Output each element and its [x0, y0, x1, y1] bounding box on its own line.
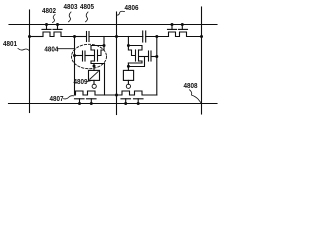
transistor Q6 bottom dual-gate right humps and wire: [117, 91, 157, 95]
node Q2 gate a on H1: [171, 23, 174, 26]
node left EL node: [93, 65, 96, 68]
wire V3 right signal line: [201, 7, 203, 114]
wire cap to driver gate: [85, 55, 95, 57]
leader 4808: [190, 90, 202, 103]
transistor Q2 dual-gate right channel humps: [169, 32, 202, 37]
wire left branch vertical x74.5: [74, 37, 76, 96]
transistor Q2 gate stub b: [181, 25, 183, 30]
wire H2 segment to cap 4803: [75, 36, 87, 38]
transistor Q1 gate bar a: [42, 28, 51, 30]
transistor Q1 gate stub b: [57, 25, 59, 30]
capacitor C2 left gate cap plates: [82, 51, 84, 61]
wire H4 bottom gate line: [9, 103, 218, 105]
node Q1 gate a on H1: [45, 23, 48, 26]
EL element D2 box right: [123, 70, 133, 80]
leader 4807: [64, 96, 74, 99]
wire box2 stub top: [127, 67, 129, 71]
node V3-H2: [200, 35, 203, 38]
node V2-H2: [115, 35, 118, 38]
node V2-H3: [115, 94, 118, 97]
transistor Q2 gate bar b: [179, 28, 188, 30]
svg-text:4806: 4806: [125, 3, 139, 12]
wire H2 segment cap to x157: [146, 36, 169, 38]
wire right EL node to riser: [128, 57, 144, 67]
node x157 cap node: [155, 55, 158, 58]
transistor Q5 bottom dual-gate 4807 humps and wire: [75, 91, 117, 95]
wire Q4 source down to EL node: [127, 63, 129, 67]
wire box stub top: [93, 64, 95, 71]
wire H2 segment cap to V2: [89, 36, 117, 38]
transistor Q5 gate stub a: [79, 99, 81, 104]
node Q5 gate a on H4: [78, 102, 81, 105]
transistor Q4 gate bar: [135, 50, 137, 61]
transistor Q4 source leg: [128, 61, 142, 63]
svg-text:4803: 4803: [64, 2, 78, 11]
EL cathode circle right: [126, 84, 130, 88]
node Q1 gate b on H1: [56, 23, 59, 26]
leader 4802: [53, 15, 56, 23]
transistor Q5 gate bar b: [87, 98, 97, 100]
capacitor C4 right gate cap plates: [148, 51, 150, 61]
transistor Q6 gate stub a: [125, 99, 127, 104]
node Q3 drain dot: [103, 44, 106, 47]
transistor Q3 drain leg: [91, 46, 104, 51]
wire H1 top gate line: [9, 24, 217, 26]
transistor Q6 gate stub b: [137, 99, 139, 104]
transistor Q1 gate bar b: [53, 28, 62, 30]
leader 4805: [86, 12, 89, 22]
node Q4 drain dot: [127, 44, 130, 47]
EL element D1 slash: [90, 72, 98, 80]
node H2 x157: [155, 35, 158, 38]
transistor Q3 gate staircase: [98, 46, 104, 56]
leader 4803: [69, 12, 72, 22]
transistor Q4 gate staircase: [128, 46, 135, 56]
svg-text:4804: 4804: [44, 45, 59, 54]
wire left gate wire to cap: [75, 55, 83, 57]
capacitor C3 right H2 cap plates: [142, 31, 144, 42]
transistor Q3 channel: [94, 50, 96, 61]
EL cathode circle left: [92, 84, 96, 88]
transistor Q6 gate bar a: [121, 98, 131, 100]
transistor Q4 drain leg: [128, 46, 142, 51]
node V1-H2: [28, 35, 31, 38]
transistor Q1 dual-gate 4802 channel humps: [43, 32, 75, 37]
transistor Q2 gate bar a: [168, 28, 177, 30]
transistor Q3 driver left (circled) stub from H2: [103, 37, 105, 46]
node Q6 gate b on H4: [137, 102, 140, 105]
svg-text:4807: 4807: [50, 94, 64, 103]
transistor Q5 gate bar a: [75, 98, 85, 100]
transistor Q3 source leg: [91, 61, 105, 64]
node Q6 gate a on H4: [124, 102, 127, 105]
svg-text:4801: 4801: [3, 39, 17, 48]
svg-text:4802: 4802: [42, 6, 56, 15]
wire left EL node down to bottom wire: [104, 64, 106, 96]
wire H2 segment V2 to cap C3: [117, 36, 143, 38]
wire cap to x157: [151, 56, 157, 58]
node right EL node: [127, 65, 130, 68]
svg-text:4808: 4808: [184, 81, 198, 90]
transistor Q3 gate bar: [97, 50, 99, 61]
transistor Q1 gate stub a: [46, 25, 48, 30]
wire V2 center power line 4806: [116, 12, 118, 115]
wire box stub bottom: [93, 80, 95, 84]
leader 4806: [117, 11, 125, 15]
EL element D1 box left: [89, 70, 100, 80]
leader 4809: [87, 80, 92, 83]
wire box2 stub bottom: [127, 80, 129, 84]
transistor Q2 gate stub a: [171, 25, 173, 30]
leader 4804: [58, 48, 74, 50]
leader 4801: [18, 49, 30, 52]
transistor Q4 channel: [138, 50, 140, 61]
node Q2 gate b on H1: [181, 23, 184, 26]
node x74.5 gate wire: [73, 54, 76, 57]
wire V1 signal line 4801: [29, 10, 31, 113]
capacitor C1 4803 plates: [86, 32, 88, 42]
wire vertical x157: [156, 37, 158, 96]
svg-text:4805: 4805: [80, 2, 94, 11]
wire H2 row wire left pixel: [30, 36, 44, 38]
wire right cap wire: [139, 56, 149, 58]
svg-text:4809: 4809: [74, 77, 88, 86]
dashed circle around driver 4805: [72, 44, 107, 68]
transistor Q6 gate bar b: [134, 98, 144, 100]
transistor Q4 driver right stub from H2: [127, 37, 129, 46]
node Q5 gate b on H4: [90, 102, 93, 105]
node H2 branch x74.5: [73, 35, 76, 38]
transistor Q5 gate stub b: [90, 99, 92, 104]
